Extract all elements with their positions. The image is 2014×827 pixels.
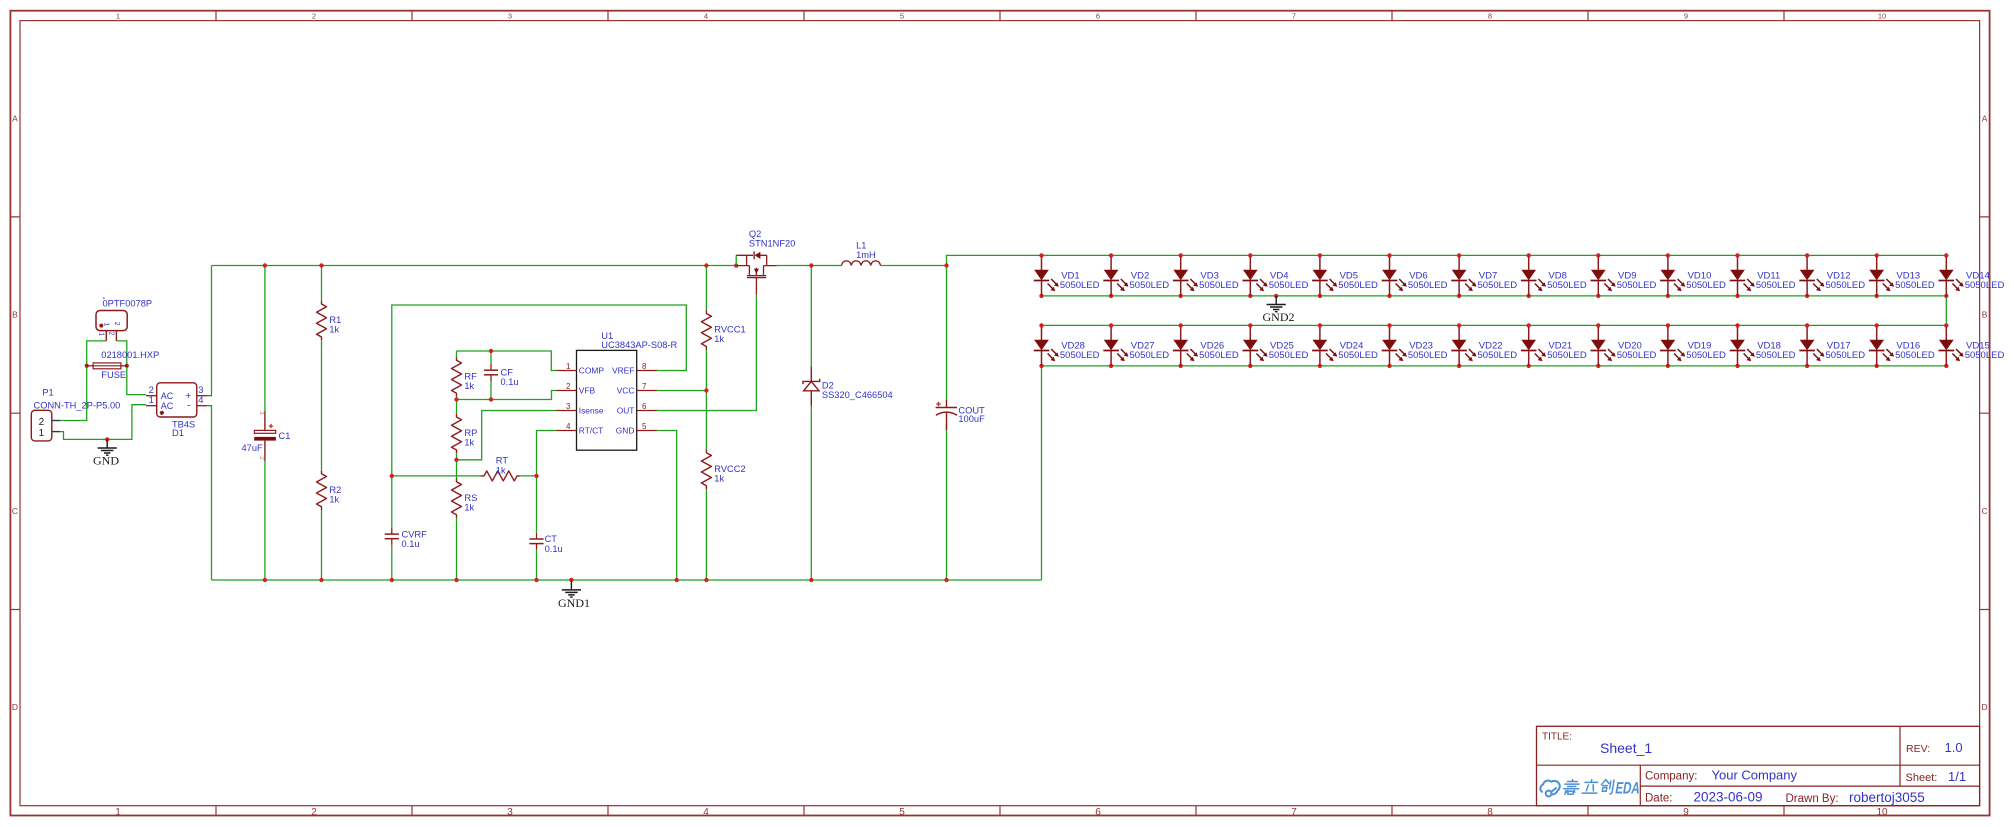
svg-text:1k: 1k: [464, 381, 474, 391]
svg-text:5050LED: 5050LED: [1895, 350, 1935, 361]
wire: CF bottom lead: [490, 381, 492, 400]
svg-text:5050LED: 5050LED: [1060, 280, 1100, 291]
LED VD13 5050LED: [1869, 257, 1935, 296]
wire: L1 to output node: [881, 265, 947, 267]
svg-text:7: 7: [1291, 807, 1297, 818]
resistor RP 1k: [452, 414, 478, 453]
junctions: LED row1 cathode rail and GND2 tap: [1039, 294, 1948, 298]
MOSFET Q2 STN1NF20: [736, 229, 795, 295]
svg-text:5050LED: 5050LED: [1269, 350, 1309, 361]
svg-text:GND: GND: [93, 453, 119, 467]
svg-text:CF: CF: [501, 367, 514, 377]
svg-text:7: 7: [642, 382, 647, 391]
svg-text:10: 10: [1878, 12, 1886, 21]
svg-text:EDA: EDA: [1614, 780, 1642, 798]
junction: C1 / +rail: [263, 263, 267, 267]
svg-text:-: -: [187, 400, 191, 412]
svg-text:1: 1: [103, 322, 110, 326]
junctions: LED row2 anode rail: [1039, 323, 1948, 327]
wire: U1 VCC to RVCC node: [657, 390, 707, 392]
wire: bridge - pin down to ground rail: [207, 406, 211, 580]
LED VD12 5050LED: [1799, 257, 1865, 296]
LED VD17 5050LED: [1799, 327, 1865, 366]
ground symbol GND2: [1263, 296, 1295, 324]
wire: P1 pin1 to bridge AC pin1 via GND node: [60, 405, 146, 440]
svg-text:UC3843AP-S08-R: UC3843AP-S08-R: [601, 340, 677, 350]
wire: U1 OUT to Q2 gate: [657, 295, 757, 411]
wire: R1 top to +rail: [321, 266, 323, 301]
svg-text:5050LED: 5050LED: [1756, 280, 1796, 291]
fuse F1 0218001.HXP: [87, 350, 160, 380]
svg-text:CVRF: CVRF: [402, 529, 428, 539]
svg-text:1: 1: [98, 332, 105, 336]
svg-text:5050LED: 5050LED: [1478, 280, 1518, 291]
svg-text:1: 1: [258, 411, 265, 415]
wire: RT right segment: [520, 475, 537, 477]
svg-text:5050LED: 5050LED: [1130, 350, 1170, 361]
svg-text:1: 1: [39, 428, 45, 439]
svg-text:B: B: [1982, 310, 1988, 320]
svg-text:2: 2: [312, 12, 316, 21]
svg-text:1k: 1k: [329, 495, 339, 505]
svg-text:C: C: [12, 506, 18, 516]
wire: U1 Isense jog to RP bottom / RS top: [457, 411, 558, 460]
LED VD4 5050LED: [1243, 257, 1309, 296]
svg-text:5050LED: 5050LED: [1617, 350, 1657, 361]
svg-text:100uF: 100uF: [958, 414, 985, 424]
capacitor CT 0.1u: [529, 533, 562, 554]
svg-text:0.1u: 0.1u: [501, 377, 519, 387]
junction: RT right / CT / RT-CT pin: [534, 474, 538, 478]
junction: R1 / +rail: [319, 263, 323, 267]
LED VD18 5050LED: [1730, 327, 1796, 366]
svg-text:2: 2: [113, 322, 120, 326]
capacitor C1 47uF (electrolytic): [242, 411, 291, 460]
svg-text:5050LED: 5050LED: [1756, 350, 1796, 361]
svg-text:0218001.HXP: 0218001.HXP: [101, 350, 159, 360]
LED VD14 5050LED: [1939, 257, 2005, 296]
svg-text:D1: D1: [172, 428, 184, 438]
wire: U1 GND pin to ground rail: [657, 431, 677, 581]
wire: bridge + pin up to top rail: [207, 266, 211, 396]
svg-text:GND2: GND2: [1263, 310, 1295, 324]
svg-text:C: C: [1982, 506, 1988, 516]
svg-text:0PTF0078P: 0PTF0078P: [103, 298, 153, 308]
wire: U1 VFB to RF/CF bottom: [457, 391, 558, 400]
wire: thermistor pin1 link: [87, 341, 107, 366]
LED VD21 5050LED: [1521, 327, 1587, 366]
svg-text:Date:: Date:: [1645, 793, 1673, 805]
svg-text:4: 4: [704, 12, 708, 21]
wire: U1 RT/CT pin down to RT/CT node: [537, 431, 558, 476]
svg-text:5050LED: 5050LED: [1199, 280, 1239, 291]
LED VD8 5050LED: [1521, 257, 1587, 296]
border row tick marks (left and right strips): [10, 217, 1989, 610]
junction: RVCC1 / +rail: [704, 263, 708, 267]
border row letters (left): [12, 113, 18, 712]
wire: RT left segment: [392, 475, 481, 477]
wire: U1 VREF loop to CVRF: [392, 305, 687, 528]
svg-text:1: 1: [115, 807, 121, 818]
wire: +rail from bridge output to Q2 drain (top rail): [212, 265, 737, 267]
svg-text:RT: RT: [496, 456, 509, 466]
svg-text:COMP: COMP: [579, 366, 605, 376]
wire: CT top lead: [536, 476, 538, 533]
svg-text:Isense: Isense: [579, 406, 604, 416]
wire: CVRF bottom to ground rail: [391, 545, 393, 580]
svg-text:1k: 1k: [464, 502, 474, 512]
svg-text:8: 8: [1488, 12, 1492, 21]
svg-text:6: 6: [642, 402, 647, 411]
svg-text:A: A: [12, 113, 18, 123]
LED VD27 5050LED: [1103, 327, 1169, 366]
border column tick marks (bottom strip): [216, 806, 1784, 816]
svg-text:1k: 1k: [329, 325, 339, 335]
svg-text:RP: RP: [464, 428, 477, 438]
svg-text:4: 4: [566, 422, 571, 431]
junction: fuse right node: [125, 364, 129, 368]
title block text TITLE: [1542, 732, 1652, 757]
IC U1 UC3843AP-S08-R: [557, 331, 678, 450]
svg-text:5050LED: 5050LED: [1826, 280, 1866, 291]
svg-text:5: 5: [642, 422, 647, 431]
LED VD10 5050LED: [1660, 257, 1726, 296]
svg-text:5050LED: 5050LED: [1060, 350, 1100, 361]
junction: output node at COUT: [944, 263, 948, 267]
svg-text:Sheet:: Sheet:: [1906, 772, 1938, 784]
wire: CF top lead: [490, 351, 492, 364]
svg-text:2: 2: [311, 807, 317, 818]
wire: D2 anode to ground rail: [810, 406, 812, 581]
svg-text:RS: RS: [464, 493, 477, 503]
junctions: LED row2 cathode rail: [1039, 364, 1948, 368]
wire: LED row2 cathode rail: [1042, 365, 1947, 367]
wire: RF bottom to RP top: [456, 397, 458, 414]
wire: fuse right node down to bridge AC pin2: [127, 366, 146, 395]
capacitor COUT 100uF (polarized): [936, 399, 985, 430]
title block text Date / Drawn By: [1645, 790, 1925, 805]
title block text Company: [1645, 768, 1798, 783]
svg-text:5050LED: 5050LED: [1826, 350, 1866, 361]
resistor R1 1k: [317, 301, 342, 340]
svg-text:D: D: [12, 702, 18, 712]
svg-text:Sheet_1: Sheet_1: [1600, 740, 1652, 756]
svg-text:3: 3: [507, 807, 513, 818]
LED VD25 5050LED: [1243, 327, 1309, 366]
svg-text:TITLE:: TITLE:: [1542, 732, 1572, 743]
wire: RVCC2 bottom to ground rail: [705, 489, 707, 580]
wire: R1 bottom to R2 top: [321, 340, 323, 470]
border row letters (right): [1982, 113, 1988, 712]
junctions: ground bottom rail: [263, 578, 949, 582]
wire: RS bottom to ground rail: [456, 518, 458, 580]
wire: thermistor pin2 link: [116, 341, 126, 366]
svg-text:0.1u: 0.1u: [402, 539, 420, 549]
svg-text:Q2: Q2: [749, 229, 761, 239]
svg-text:Drawn By:: Drawn By:: [1786, 793, 1839, 805]
LED VD6 5050LED: [1382, 257, 1448, 296]
svg-text:AC: AC: [161, 391, 174, 401]
svg-text:4: 4: [198, 394, 203, 405]
svg-text:6: 6: [1095, 807, 1101, 818]
junction: fuse left node: [85, 364, 89, 368]
junction: D2 cathode / switch rail: [809, 263, 813, 267]
svg-text:4: 4: [703, 807, 709, 818]
border column tick marks (top strip): [216, 11, 1784, 21]
svg-text:1k: 1k: [464, 438, 474, 448]
resistor RVCC2 1k: [701, 450, 745, 489]
LED VD26 5050LED: [1173, 327, 1239, 366]
svg-text:2: 2: [566, 382, 571, 391]
svg-text:RF: RF: [464, 371, 477, 381]
svg-text:R1: R1: [329, 315, 341, 325]
svg-text:RVCC1: RVCC1: [714, 325, 745, 335]
title block text REV: [1906, 740, 1963, 755]
svg-text:P1: P1: [42, 387, 53, 397]
svg-text:Company:: Company:: [1645, 771, 1697, 783]
wire: R2 bottom to ground rail: [321, 510, 323, 580]
resistor RT 1k (horizontal): [481, 456, 520, 481]
junctions: LED row1 anode rail: [1039, 253, 1948, 257]
junction: CF top / COMP net: [489, 349, 493, 353]
wire: ground bottom rail: [212, 579, 1042, 581]
svg-text:5: 5: [900, 12, 904, 21]
wire: RF top lead: [456, 351, 458, 357]
svg-text:8: 8: [1487, 807, 1493, 818]
svg-text:1.0: 1.0: [1945, 740, 1963, 755]
svg-text:47uF: 47uF: [242, 443, 264, 453]
svg-text:C1: C1: [279, 431, 291, 441]
LED VD19 5050LED: [1660, 327, 1726, 366]
svg-text:SS320_C466504: SS320_C466504: [822, 390, 893, 400]
svg-text:9: 9: [1683, 807, 1689, 818]
ground symbol GND (AC return): [93, 439, 119, 467]
resistor RF 1k: [452, 357, 478, 396]
LED VD3 5050LED: [1173, 257, 1239, 296]
wire: COUT bottom lead: [946, 424, 948, 580]
resistor RS 1k: [452, 479, 478, 518]
LED VD22 5050LED: [1451, 327, 1517, 366]
svg-text:3: 3: [566, 402, 571, 411]
wire: series link row1 to row2: [1945, 296, 1947, 326]
svg-text:STN1NF20: STN1NF20: [749, 239, 796, 249]
svg-text:2023-06-09: 2023-06-09: [1694, 790, 1763, 805]
inductor L1 1mH: [842, 241, 881, 266]
svg-text:FUSE: FUSE: [101, 370, 126, 380]
svg-text:GND1: GND1: [558, 596, 590, 610]
wire: LED return to ground rail: [1041, 366, 1043, 580]
svg-text:5050LED: 5050LED: [1617, 280, 1657, 291]
svg-text:VREF: VREF: [612, 366, 634, 376]
wire: D2 cathode to switch node: [810, 266, 812, 367]
svg-text:Your Company: Your Company: [1712, 768, 1798, 783]
svg-text:A: A: [1982, 113, 1988, 123]
svg-text:D: D: [1982, 702, 1988, 712]
svg-text:VFB: VFB: [579, 386, 596, 396]
svg-text:RT/CT: RT/CT: [579, 426, 604, 436]
junction: CF bottom / VFB net: [489, 397, 493, 401]
svg-text:R2: R2: [329, 485, 341, 495]
wire: COUT top lead: [946, 266, 948, 400]
junction: RP bottom / RS top / Isense: [454, 458, 458, 462]
svg-text:8: 8: [642, 362, 647, 371]
border column numbers (bottom): [115, 807, 1888, 818]
JLC EDA logo (cloud + 嘉立创EDA): [1540, 780, 1641, 798]
svg-text:RVCC2: RVCC2: [714, 464, 745, 474]
svg-text:1/1: 1/1: [1948, 769, 1966, 784]
svg-text:L1: L1: [856, 241, 866, 251]
svg-text:2: 2: [107, 332, 114, 336]
LED VD23 5050LED: [1382, 327, 1448, 366]
svg-text:1k: 1k: [714, 334, 724, 344]
junction: AC return / GND tap: [105, 437, 109, 441]
LED VD20 5050LED: [1591, 327, 1657, 366]
svg-text:5050LED: 5050LED: [1269, 280, 1309, 291]
svg-text:5050LED: 5050LED: [1338, 280, 1378, 291]
LED VD28 5050LED: [1034, 327, 1100, 366]
LED VD1 5050LED: [1034, 257, 1100, 296]
wire: P1 pin2 to fuse/thermistor left node: [60, 366, 86, 421]
svg-text:5050LED: 5050LED: [1965, 280, 2005, 291]
svg-text:GND: GND: [616, 426, 635, 436]
border column numbers (top): [116, 12, 1886, 21]
wire: Q2 source to L1: [777, 265, 842, 267]
LED VD11 5050LED: [1730, 257, 1796, 296]
svg-text:5050LED: 5050LED: [1547, 350, 1587, 361]
LED VD15 5050LED: [1939, 327, 2005, 366]
svg-text:1: 1: [566, 362, 571, 371]
junction: Q2 drain node: [734, 263, 738, 267]
LED VD16 5050LED: [1869, 327, 1935, 366]
LED VD7 5050LED: [1451, 257, 1517, 296]
svg-text:5050LED: 5050LED: [1895, 280, 1935, 291]
svg-text:5050LED: 5050LED: [1130, 280, 1170, 291]
svg-text:1k: 1k: [496, 465, 506, 475]
wire: C1 top lead to +rail: [264, 266, 266, 412]
junction: RF bottom / VFB net: [454, 397, 458, 401]
svg-text:OUT: OUT: [617, 406, 635, 416]
ground symbol GND1: [558, 581, 590, 610]
wire: LED row1 cathode rail: [1042, 295, 1947, 297]
LED VD24 5050LED: [1312, 327, 1378, 366]
svg-text:5050LED: 5050LED: [1547, 280, 1587, 291]
wire: CT bottom lead: [536, 550, 538, 580]
resistor R2 1k: [317, 471, 342, 510]
svg-text:1: 1: [116, 12, 120, 21]
wire: C1 bottom lead to ground rail: [264, 460, 266, 580]
svg-text:7: 7: [1292, 12, 1296, 21]
svg-text:5050LED: 5050LED: [1686, 350, 1726, 361]
thermistor RT1 0PTF0078P: [96, 297, 152, 341]
svg-text:5050LED: 5050LED: [1965, 350, 2005, 361]
diode D2 SS320_C466504 (schottky): [803, 367, 893, 406]
svg-text:robertoj3055: robertoj3055: [1849, 790, 1925, 805]
svg-text:3: 3: [508, 12, 512, 21]
svg-text:VCC: VCC: [617, 386, 635, 396]
svg-text:5050LED: 5050LED: [1408, 280, 1448, 291]
LED VD2 5050LED: [1103, 257, 1169, 296]
wire: RP bottom to RS top: [456, 453, 458, 478]
svg-text:9: 9: [1684, 12, 1688, 21]
svg-text:5050LED: 5050LED: [1408, 350, 1448, 361]
wire: output node jog up and LED row1 anode rail: [947, 255, 1947, 265]
svg-text:6: 6: [1096, 12, 1100, 21]
svg-text:5: 5: [899, 807, 905, 818]
svg-text:5050LED: 5050LED: [1686, 280, 1726, 291]
wire: RVCC1 bottom to RVCC2 top (VCC node): [705, 350, 707, 450]
junction: VCC node: [704, 388, 708, 392]
svg-text:0.1u: 0.1u: [545, 544, 563, 554]
capacitor CF 0.1u: [484, 364, 519, 387]
junction: VREF-CVRF / RT left: [390, 474, 394, 478]
bridge rectifier D1 TB4S: [146, 383, 207, 438]
svg-text:1: 1: [149, 394, 154, 405]
LED VD9 5050LED: [1591, 257, 1657, 296]
svg-text:AC: AC: [161, 401, 174, 411]
svg-text:REV:: REV:: [1906, 743, 1930, 755]
svg-text:D2: D2: [822, 381, 834, 391]
svg-text:5050LED: 5050LED: [1338, 350, 1378, 361]
resistor RVCC1 1k: [701, 310, 745, 349]
svg-text:CONN-TH_2P-P5.00: CONN-TH_2P-P5.00: [34, 401, 121, 411]
svg-text:10: 10: [1876, 807, 1888, 818]
title block frame: [1537, 726, 1980, 805]
wire: U1 COMP to RF/CF top: [457, 351, 558, 371]
svg-text:2: 2: [258, 456, 265, 460]
svg-text:5050LED: 5050LED: [1478, 350, 1518, 361]
svg-text:5050LED: 5050LED: [1199, 350, 1239, 361]
wire: RVCC1 top to +rail: [705, 266, 707, 311]
connector P1 CONN-TH_2P-P5.00: [31, 387, 120, 441]
svg-text:1mH: 1mH: [856, 250, 876, 260]
title block text Sheet: [1906, 769, 1967, 784]
svg-text:B: B: [12, 310, 18, 320]
svg-text:CT: CT: [545, 534, 558, 544]
svg-text:1k: 1k: [714, 474, 724, 484]
LED VD5 5050LED: [1312, 257, 1378, 296]
wire: LED row2 anode rail: [1042, 324, 1947, 326]
capacitor CVRF 0.1u: [385, 528, 427, 549]
svg-text:2: 2: [39, 417, 45, 428]
